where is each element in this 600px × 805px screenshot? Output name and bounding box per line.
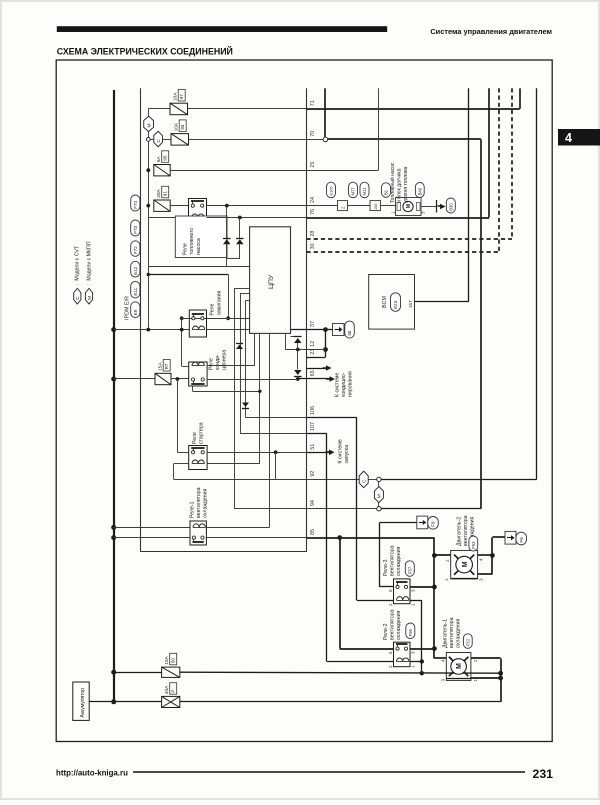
svg-text:E23: E23 [393,300,398,309]
svg-text:2: 2 [445,559,450,562]
col row71 right [307,108,520,110]
svg-text:М: М [146,124,152,128]
svg-text:охлаждения: охлаждения [456,619,462,648]
wire col row51 to row92 [275,452,277,479]
svg-text:зажигания: зажигания [217,290,223,315]
diode col C bot [297,376,299,379]
svg-text:91: 91 [163,191,168,197]
wire circle to C-hex to fuse2 [150,139,154,141]
wire fuse1 row bend [148,108,170,110]
svg-text:4: 4 [441,659,446,662]
svg-text:1: 1 [391,211,396,214]
svg-text:Модели с CVT: Модели с CVT [75,245,81,280]
wire motor2 bottom tie [491,555,493,574]
svg-text:97: 97 [179,94,184,100]
diode col A lower [226,244,228,259]
wire bus to relay1 contact [114,537,190,539]
wire row24 right to fuel pump [307,205,338,207]
svg-text:М: М [377,494,383,498]
fan motor 1 (Двигатель-1 вентилятора охлаждения) [446,653,471,681]
fuel pump unit box [396,198,422,216]
junction bus ignition coil row [111,327,116,332]
fuse 10A 50 [162,667,180,677]
svg-text:3: 3 [411,589,416,592]
junction bus AC fuse row [111,377,116,382]
svg-text:К системе: К системе [335,373,341,397]
svg-text:85: 85 [310,529,316,535]
svg-text:M: M [456,663,463,669]
junction row85 relay2 branch [337,535,342,540]
svg-text:С: С [75,296,81,300]
svg-text:28: 28 [310,231,316,237]
wire fuse 93 to pin 70 [189,139,307,141]
junction row12 diode col [296,348,300,352]
wire 50-fuse row to right [180,672,501,673]
fuse 15A R7 [155,373,171,384]
IPDM E/R bottom edge [141,551,307,553]
svg-text:вентилятора: вентилятора [390,545,396,576]
junction row24 diode col [225,204,229,208]
svg-text:топливного: топливного [189,228,195,255]
diode col B lower [239,244,241,259]
diode D4 [294,370,302,375]
wire starter feed col [177,379,179,452]
wire variant col to fuel relay coil [148,217,188,219]
arrow to AC system 1 [323,367,329,369]
svg-text:M11: M11 [362,187,367,196]
svg-text:1: 1 [411,665,416,668]
svg-text:15A: 15A [158,362,164,371]
legend hexagon M [85,288,92,304]
svg-text:2: 2 [388,603,393,606]
wire row 106 right [307,417,357,419]
svg-text:M: M [406,204,412,208]
junction motor1 ground row [498,671,503,676]
oval F52 [463,634,472,649]
svg-text:F73: F73 [133,225,138,233]
connector oval M11 [360,182,369,198]
svg-text::: : [75,284,81,285]
svg-text:25: 25 [310,162,316,168]
relay fuel pump (Реле топливного насоса) [189,199,207,223]
wire relay3 coil from col [357,600,394,602]
svg-text:B1: B1 [384,189,389,195]
wire C-hex to circle1 [368,479,377,481]
wire relay1 coil right to CPU col [206,527,269,529]
wire row70 right [328,138,481,140]
junction row51 [274,450,278,454]
svg-text:охлаждения: охлаждения [396,547,402,576]
wire AC coil to CPU col [207,365,255,367]
svg-text:3: 3 [420,211,425,214]
svg-text:E11: E11 [133,287,138,295]
wire circle1 to M hex [378,482,380,487]
svg-text:F56: F56 [408,628,413,636]
svg-text:вентилятора: вентилятора [196,487,202,518]
svg-text:B40: B40 [417,187,422,195]
CPU box (ЦПУ) [250,227,291,334]
hexagon C variant on row 70 [154,131,163,146]
wire CPU to row106 col [245,300,249,302]
fuel pump relay label box [175,216,227,258]
svg-text:Система управления двигателем: Система управления двигателем [430,27,552,36]
wire sq2 to sq100 [348,205,371,207]
svg-text:вентилятора: вентилятора [390,609,396,640]
wire row76 right [307,217,490,219]
wire to F6 [491,537,493,555]
svg-text:ционера: ционера [222,350,228,370]
svg-text:R7: R7 [164,363,169,369]
svg-text:F74: F74 [133,200,138,208]
svg-text:IPDM E/R: IPDM E/R [125,296,131,320]
diode D3 [294,338,302,343]
svg-text:157: 157 [408,300,413,308]
svg-text:3: 3 [478,578,483,581]
svg-text:СХЕМА ЭЛЕКТРИЧЕСКИХ СОЕДИНЕНИЙ: СХЕМА ЭЛЕКТРИЧЕСКИХ СОЕДИНЕНИЙ [57,45,233,56]
relay starter (Реле стартера) [189,446,207,470]
oval E38 [345,321,355,338]
junction motor2 feed [432,553,437,558]
wire fuse 97 to pin 71 [188,108,307,110]
svg-text:1: 1 [411,603,416,606]
svg-text:Реле: Реле [210,304,216,316]
svg-text:вентилятора: вентилятора [463,515,469,546]
fuse 10A 97 [170,103,188,115]
junction relay aux col top [180,316,184,320]
svg-text:5A: 5A [156,156,162,163]
svg-text:F57: F57 [407,566,412,574]
svg-text:Модели с МКПП: Модели с МКПП [86,241,92,280]
connector oval F74 [131,195,140,211]
wire starter coil jog [174,463,189,465]
wire ign coil to CPU [207,329,250,331]
junction relay2 pin1 col [420,659,424,663]
svg-text:4: 4 [478,558,483,561]
svg-text:12: 12 [310,341,316,347]
wire diodes to CPU [226,259,228,266]
wire starter coil to CPU col [207,463,260,465]
svg-text:Двигатель-2: Двигатель-2 [457,517,463,546]
connector F9 (box+oval) [417,516,428,529]
junction row76 diode col [238,216,242,220]
svg-text:стартера: стартера [199,422,205,444]
diode col C mid [297,343,299,370]
svg-text:конди-: конди- [215,354,221,370]
wire circle1 to right col [381,479,537,481]
diode D6 on col 245 [242,403,249,408]
diode col B upper [239,218,241,239]
svg-text:65: 65 [310,370,316,376]
diode D2 row76 [236,239,244,244]
svg-text:С: С [156,139,162,143]
wire M-hex to circle [148,132,150,138]
wire relay3 contact out [410,586,434,588]
svg-text:94: 94 [310,500,316,506]
svg-text:100: 100 [374,204,378,210]
wire relay2 pin1 [410,661,422,663]
wire M hex to circle2 [378,503,380,507]
junction circle-2 [377,507,381,511]
junction relay3 contact out [432,585,437,590]
svg-text:F6: F6 [519,537,524,543]
col 325 to row70 circle [324,88,326,137]
connector oval M77 [349,182,358,198]
ground arrow B30 [436,200,438,213]
svg-text:50: 50 [171,658,176,664]
connector oval B1 [382,183,391,198]
connector oval B40 [415,183,424,198]
wire row 94 [307,508,377,510]
svg-text:2: 2 [388,665,393,668]
svg-text:B30: B30 [448,203,453,211]
svg-text:107: 107 [310,422,316,431]
wire variant column down [148,141,150,329]
junction col 50A row [420,671,424,675]
wire row 12 from CPU col [285,333,287,349]
arrow to start system [326,451,332,453]
svg-text:23: 23 [310,349,316,355]
svg-text:E105: E105 [328,186,333,195]
junction bus relay1 coil [111,525,116,530]
svg-text:3: 3 [411,651,416,654]
relay-1 cooling fan (Реле-1 вентилятора охлаждения) [190,521,206,545]
wire row 92 [174,479,359,481]
diode D5 on col 240 [236,345,243,350]
wire fuel relay coil to pin 76 [207,217,307,219]
svg-text:40A: 40A [164,685,170,694]
svg-text:231: 231 [533,767,554,781]
wire bus to relay1 coil [114,527,190,529]
connector square 2 [338,201,348,211]
svg-text:М: М [87,296,93,300]
wire bus to 15A fuse [114,378,155,380]
wire F9 to relay3 contact [380,522,417,524]
svg-text:1: 1 [444,578,449,581]
connector oval F73 [131,220,140,236]
svg-text:95: 95 [163,155,168,161]
wire bus to ignition coil (row 37 left) [114,329,190,331]
wire fuse 91 to fuel pump relay [170,205,188,207]
svg-text:Аккумулятор: Аккумулятор [80,688,86,718]
svg-text:24: 24 [310,197,316,203]
junction circle-1 [377,477,381,481]
oval F56 [406,623,415,639]
connector F6 (box+oval) [505,531,516,544]
relay ignition (Реле зажигания) [189,310,206,337]
svg-text:10A: 10A [173,92,179,101]
IPDM E/R left edge [140,88,142,552]
svg-text:С: С [362,479,368,483]
wire fuse R7 to AC relay [171,378,189,380]
wire AC contact row65b [207,379,298,381]
wire motor1 bottom tie [446,678,471,680]
wire row 23 [325,350,327,358]
svg-text:Реле-1: Реле-1 [190,501,196,518]
svg-text:E9: E9 [133,309,138,315]
junction variant col row25 [146,168,150,172]
wire row 107 right [307,433,327,435]
svg-text:насоса: насоса [196,238,202,255]
wire bus to 10A-50 fuse [114,672,162,674]
wire branch to relay2 contact [339,538,341,649]
connector square 100 [370,201,381,211]
diagram frame [56,60,552,742]
svg-text:К системе: К системе [338,439,344,463]
svg-text:30: 30 [310,243,316,249]
junction bus/battery row [111,699,116,704]
svg-text:106: 106 [310,406,316,415]
legend hexagon C [74,288,81,304]
oval F57 [405,561,414,577]
wire starter contact to pin 51 [207,452,306,454]
svg-text:BCM: BCM [382,296,388,308]
hexagon M row94 [374,487,383,503]
wire row 65 arrow [307,368,328,370]
relay-2 cooling fan (Реле-2 вентилятора охлаждения) [394,642,411,667]
chapter tab 4 [558,129,600,146]
junction bus row85 [111,535,116,540]
diode col C top [291,336,298,338]
fan motor 2 (Двигатель-2 вентилятора охлаждения) [451,550,478,579]
wire thick feed row [148,274,228,276]
wire battery to bus [89,701,161,703]
hexagon C row92 [359,471,368,488]
wire aux col [181,318,183,366]
svg-text:запуска: запуска [344,445,350,464]
svg-text:нирования: нирования [348,371,354,397]
wire row 51 arrow [307,452,331,454]
wire BCM 157 to top [415,301,470,303]
connector oval E105 [327,182,336,198]
svg-text:5: 5 [388,651,393,654]
wire strip to circle row70 [307,139,324,141]
svg-text:P: P [171,690,176,693]
svg-text:2: 2 [473,659,478,662]
svg-text:71: 71 [310,100,316,106]
svg-text:и блок датчика: и блок датчика [397,168,403,203]
junction starter feed col [176,377,180,381]
svg-text:37: 37 [310,321,316,327]
connector oval E9 [131,302,140,318]
svg-text:Двигатель-1: Двигатель-1 [443,619,449,648]
svg-text:Реле: Реле [183,243,189,255]
svg-text:M77: M77 [351,187,356,196]
fuse 10A 93 [171,134,189,146]
svg-text:http://auto-kniga.ru: http://auto-kniga.ru [56,768,128,777]
svg-text:вентилятора: вентилятора [449,617,455,648]
wire pump pin3 to ground [421,206,437,208]
svg-text:76: 76 [310,209,316,215]
wire fuse 95 to pin 25 [170,170,306,172]
wire CPU to row107 col [240,293,250,295]
wire sq100 to pump [381,205,396,207]
junction dot-2 row12 [323,347,328,352]
dashed row 28 [307,238,513,240]
diode D1 row24 [223,239,231,244]
connector oval E11 [131,281,140,298]
junction relay2 contact out [432,646,437,651]
relay-3 cooling fan (Реле-3 вентилятора охлаждения) [394,579,411,604]
battery Аккумулятор [73,682,89,720]
wire feed col to ignition contact [228,275,230,319]
junction circle fuel variant [146,138,150,142]
junction motor1 pin1 [498,676,503,681]
wire to motor2 pin2 [434,554,450,556]
svg-text:51: 51 [310,444,316,450]
wire 40A row to right column [180,701,501,703]
svg-text::: : [87,284,93,285]
svg-text:F52: F52 [465,638,470,646]
svg-text:5: 5 [388,589,393,592]
svg-text:M: M [462,561,469,567]
svg-text:10A: 10A [164,655,170,664]
svg-text:охлаждения: охлаждения [396,611,402,640]
junction circle row70 [323,137,328,142]
fuse 20A 91 [154,200,170,211]
wire circle2 to col 481 [381,508,481,510]
svg-text:уровня топлива: уровня топлива [403,166,409,203]
oval F53 [469,536,478,551]
junction variant col row24 [146,204,150,208]
connector oval B30 [446,198,455,213]
wire row 37 from CPU [291,329,333,331]
svg-text:F72: F72 [133,246,138,254]
svg-text:ЦПУ: ЦПУ [268,274,275,289]
wire row 85 right [307,537,435,539]
svg-text:93: 93 [180,124,185,130]
svg-text:38: 38 [347,330,352,336]
wire fuel relay contact to pin 24 [207,205,307,207]
svg-text:Реле: Реле [192,432,198,444]
svg-text:70: 70 [310,131,316,137]
diode col A upper [226,206,228,239]
svg-text:4: 4 [565,131,572,145]
battery positive bus (thick vertical) [113,90,115,702]
wire CPU to row94 col [234,288,250,290]
tie col dot1-dot2 [325,330,327,350]
svg-text:20A: 20A [156,188,162,197]
svg-text:кондицио-: кондицио- [341,372,347,397]
junction variant col end [146,328,150,332]
svg-text:1: 1 [473,679,478,682]
header black bar [57,26,387,32]
footer rule [133,771,525,773]
arrow box row 37 [333,324,345,336]
wire motor1 pin2 out [471,657,501,659]
wire row 85 [206,537,306,539]
BCM box [369,275,415,330]
svg-text:Реле-3: Реле-3 [383,559,389,576]
junction bus/50A row [111,670,116,675]
wire relay2 coil from col [327,661,394,663]
svg-text:2: 2 [341,206,346,209]
wire relay3 pin1 col [410,600,422,602]
svg-text:Топливный насос: Топливный насос [389,162,396,203]
IPDM E/R right edge (pin strip) [306,88,308,552]
fusible link 40A P (X symbol) [162,696,180,707]
dashed row 30 [307,251,499,253]
junction row65b diode col [296,377,300,381]
junction motor2 ground [490,553,495,558]
col row25 right [307,170,379,172]
wire to motor1 pin4 [434,657,446,659]
wire aux col to AC coil [182,366,189,368]
wire AC relay lower pin row [192,386,194,391]
svg-text:Реле: Реле [209,358,215,370]
wire motor2 pin4 out [478,554,493,556]
svg-text:Реле-2: Реле-2 [383,623,389,640]
arrow to AC system 2 [326,378,332,380]
